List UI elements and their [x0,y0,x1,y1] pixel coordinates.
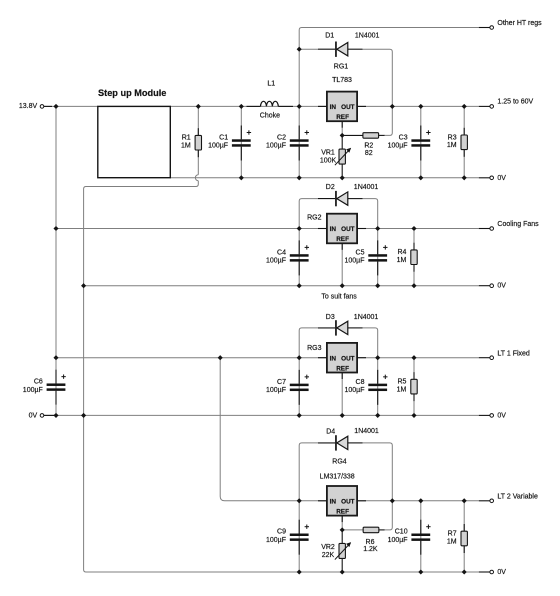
node R3 top [462,104,467,109]
resistor R1 [181,106,202,157]
capacitor C10 [388,501,431,572]
svg-text:100µF: 100µF [266,143,286,150]
wire 13.8V bus down left side [55,106,57,370]
svg-text:R2: R2 [364,143,373,150]
svg-text:100µF: 100µF [388,143,408,150]
terminal Cooling Fans output [490,221,539,230]
node R4 top [411,226,416,231]
svg-text:0V: 0V [29,412,38,419]
terminal 0V right 2 [490,283,506,290]
node RG2 out / D2 anode / C5 top [375,226,380,231]
node C8 bottom [375,413,380,418]
wire section3 input line [56,357,327,359]
node C9 bottom [297,569,302,574]
node R7 top [462,498,467,503]
terminal 1.25 to 60V output [490,99,534,109]
step up module [98,88,171,178]
wire RG3 REF to 0V [341,373,343,416]
svg-text:R6: R6 [366,539,375,546]
svg-text:LT 2 Variable: LT 2 Variable [497,494,538,501]
svg-text:OUT: OUT [341,355,355,362]
resistor R5 [397,358,418,416]
wire R6 left lead to REF node [342,529,363,531]
node C2 bottom [297,175,302,180]
svg-text:TL783: TL783 [332,77,352,84]
svg-text:0V: 0V [497,412,506,419]
svg-text:1M: 1M [397,387,407,394]
svg-text:VR1: VR1 [321,150,335,157]
svg-text:C5: C5 [356,249,365,256]
svg-text:C1: C1 [219,135,228,142]
node RG2 REF ground [340,283,345,288]
svg-text:C10: C10 [395,529,408,536]
svg-text:R5: R5 [397,379,406,386]
svg-text:Cooling Fans: Cooling Fans [497,221,539,228]
svg-text:0V: 0V [497,569,506,576]
resistor R4 [397,229,418,286]
wire section2 output line (RG2 to Cooling Fans terminal) [357,228,479,230]
wire stub to 0V terminal 1 [479,177,490,179]
wire RG4 REF pin to REF node [341,516,343,530]
diode D1 1N4001 [318,33,380,57]
capacitor C3 [388,106,431,177]
svg-text:R4: R4 [397,249,406,256]
svg-text:To suit fans: To suit fans [321,294,357,301]
node C2 top / HT branch [297,104,302,109]
wire D4 anode to RG4 output and R6 [363,443,393,530]
svg-text:1M: 1M [181,143,191,150]
svg-text:Choke: Choke [260,113,280,120]
node R5 top [411,355,416,360]
resistor R7 [447,501,468,572]
diode D2 1N4001 [318,184,378,206]
node branch to RG4 [218,355,223,360]
wire section1 output line (RG1 to 1.25-60V terminal) [357,105,479,107]
svg-text:100µF: 100µF [266,537,286,544]
node section2 input tap [53,226,58,231]
svg-text:C7: C7 [277,379,286,386]
node 13.8V input junction [53,104,58,109]
node C5 bottom [375,283,380,288]
wire 13.8V bus lower (C6 bottom to 0V rail) [55,404,57,415]
svg-text:IN: IN [330,355,337,362]
svg-text:IN: IN [330,226,337,233]
svg-text:Other HT regs: Other HT regs [497,20,542,27]
svg-text:1.2K: 1.2K [363,546,378,553]
node C1 top [239,104,244,109]
wire other HT regs branch [299,28,479,107]
node ground bus rail3 [81,413,86,418]
node R4 bottom [411,283,416,288]
svg-text:C4: C4 [277,249,286,256]
svg-text:RG2: RG2 [307,215,322,222]
svg-text:RG3: RG3 [307,345,322,352]
svg-text:100K: 100K [320,157,337,164]
wire D1 cathode lead [299,48,318,50]
svg-text:1M: 1M [447,538,457,545]
node RG3 out / D3 anode / C8 top [375,355,380,360]
capacitor C9 [266,501,309,572]
terminal Other HT regs [490,20,542,29]
capacitor C4 [266,229,309,286]
node C3 top [418,104,423,109]
regulator U3 RG3 [307,343,366,379]
terminal 13.8V input [19,103,44,110]
wire section2 input line [56,228,327,230]
svg-text:100µF: 100µF [345,258,365,265]
svg-text:LM317/338: LM317/338 [320,474,355,481]
svg-text:RG1: RG1 [334,64,349,71]
wire ground bus from R1 down left side to bottom 0V rail [84,150,479,572]
svg-text:IN: IN [330,498,337,505]
svg-text:100µF: 100µF [266,258,286,265]
svg-text:LT 1 Fixed: LT 1 Fixed [497,350,530,357]
svg-text:100µF: 100µF [266,387,286,394]
resistor R6 1.2K [363,527,384,553]
svg-text:1N4001: 1N4001 [354,428,379,435]
node section3 input tap / C6 top [53,355,58,360]
wire stub from 13.8V terminal [44,105,52,107]
svg-text:R1: R1 [182,135,191,142]
wire D1 anode to RG1 output and R2 [363,49,393,135]
node VR2 bottom [340,569,345,574]
wire section4 output line (RG4 to LT 2 Variable terminal) [357,500,479,502]
node C7 bottom [297,413,302,418]
svg-text:100µF: 100µF [208,143,228,150]
regulator U2 RG2 [307,214,366,250]
capacitor C8 [345,358,388,416]
node RG3 REF ground [340,413,345,418]
capacitor C7 [266,358,309,416]
svg-text:C3: C3 [399,135,408,142]
svg-text:13.8V: 13.8V [19,103,38,110]
wire section3 output line (RG3 to LT 1 Fixed terminal) [357,357,479,359]
wire 0V rail section1 [170,177,479,179]
svg-text:100µF: 100µF [23,387,43,394]
wire stub to LT 1 Fixed terminal [479,357,490,359]
node R5 bottom [411,413,416,418]
svg-text:22K: 22K [322,552,335,559]
terminal 0V right 3 [490,412,506,419]
wire D4 cathode branch [299,443,318,501]
node R3 bottom [462,175,467,180]
node C4 top / D2 cathode [297,226,302,231]
node C3 bottom [418,175,423,180]
resistor R3 [447,106,468,177]
terminal 0V right 1 [490,175,506,182]
diode D3 1N4001 [318,314,378,336]
svg-text:D2: D2 [326,184,335,191]
node C7 top / D3 cathode [297,355,302,360]
wire D2 cathode branch [299,199,318,229]
wire stub from left 0V terminal [44,414,56,416]
regulator U4 RG4 LM317/338 [318,459,366,523]
node RG4 REF / R6 / VR2 [340,527,345,532]
svg-text:VR2: VR2 [321,544,335,551]
svg-text:82: 82 [365,150,373,157]
svg-text:L1: L1 [267,81,275,88]
wire RG1 REF pin to REF node [341,121,343,135]
wire stub to Other HT regs terminal [479,27,490,29]
node R1 top [196,104,201,109]
node RG1 REF [340,133,345,138]
node C1 bottom [239,175,244,180]
svg-text:1.25 to 60V: 1.25 to 60V [497,99,533,106]
capacitor C5 [345,229,388,286]
svg-text:1N4001: 1N4001 [354,184,379,191]
terminal LT 2 Variable output [490,494,538,503]
wire D2 anode branch [363,199,378,229]
svg-text:1M: 1M [397,257,407,264]
wire RG2 REF to 0V [341,243,343,285]
wire stub to 0V terminal 4 [479,571,490,573]
wire stub to LT 2 Variable terminal [479,500,490,502]
node D1 cathode [297,47,302,52]
svg-text:RG4: RG4 [332,459,347,466]
node C6 bottom [53,413,58,418]
wire 0V rail section2 [84,285,479,287]
capacitor C2 [266,106,309,177]
svg-text:REF: REF [336,236,349,243]
svg-text:R7: R7 [448,531,457,538]
svg-text:OUT: OUT [341,226,355,233]
svg-text:REF: REF [336,508,349,515]
capacitor C1 [208,106,251,177]
svg-text:IN: IN [330,104,337,111]
svg-text:REF: REF [336,365,349,372]
node RG4 out / D4 anode [390,498,395,503]
wire stub to 0V terminal 2 [479,285,490,287]
svg-text:C6: C6 [34,379,43,386]
svg-text:C2: C2 [277,135,286,142]
terminal LT 1 Fixed output [490,350,530,359]
node C4 bottom [297,283,302,288]
wire stub to Cooling Fans terminal [479,228,490,230]
potentiometer VR1 100K [320,135,351,177]
node C10 top [418,498,423,503]
svg-text:Step up Module: Step up Module [98,88,166,98]
inductor L1 [247,81,294,120]
node RG1 out / D1 anode [390,104,395,109]
svg-text:D3: D3 [326,314,335,321]
svg-text:REF: REF [336,114,349,121]
terminal 0V right 4 [490,569,506,576]
label to suit fans [321,294,357,301]
wire 13.8V input to module [44,105,98,107]
svg-text:100µF: 100µF [388,537,408,544]
wire branch to section4 regulator [220,358,327,501]
svg-text:0V: 0V [497,175,506,182]
wire D3 anode branch [363,328,378,358]
svg-text:OUT: OUT [341,104,355,111]
svg-text:1N4001: 1N4001 [355,33,380,40]
node C9 top / D4 cathode [297,498,302,503]
svg-text:D4: D4 [326,429,335,436]
svg-text:OUT: OUT [341,498,355,505]
regulator U1 RG1 TL783 [318,64,366,128]
wire stub to 0V terminal 3 [479,414,490,416]
svg-text:1M: 1M [447,142,457,149]
wire 0V rail section3 [44,414,479,416]
node R7 bottom [462,569,467,574]
resistor R2 82 [344,133,384,157]
svg-text:1N4001: 1N4001 [354,314,379,321]
node C10 bottom [418,569,423,574]
terminal 0V left [29,412,44,419]
svg-text:C8: C8 [356,379,365,386]
svg-text:R3: R3 [448,134,457,141]
capacitor C6 [23,358,66,416]
node ground bus rail2 [81,283,86,288]
svg-text:C9: C9 [277,529,286,536]
node VR1 bottom [340,175,345,180]
svg-text:100µF: 100µF [345,387,365,394]
wire stub to 1.25-60V terminal [479,105,490,107]
wire D3 cathode branch [299,328,318,358]
svg-text:0V: 0V [497,283,506,290]
svg-text:D1: D1 [325,33,334,40]
diode D4 1N4001 [318,428,379,451]
wire section1 input line (module to RG1) [170,105,327,107]
potentiometer VR2 22K [321,530,351,572]
